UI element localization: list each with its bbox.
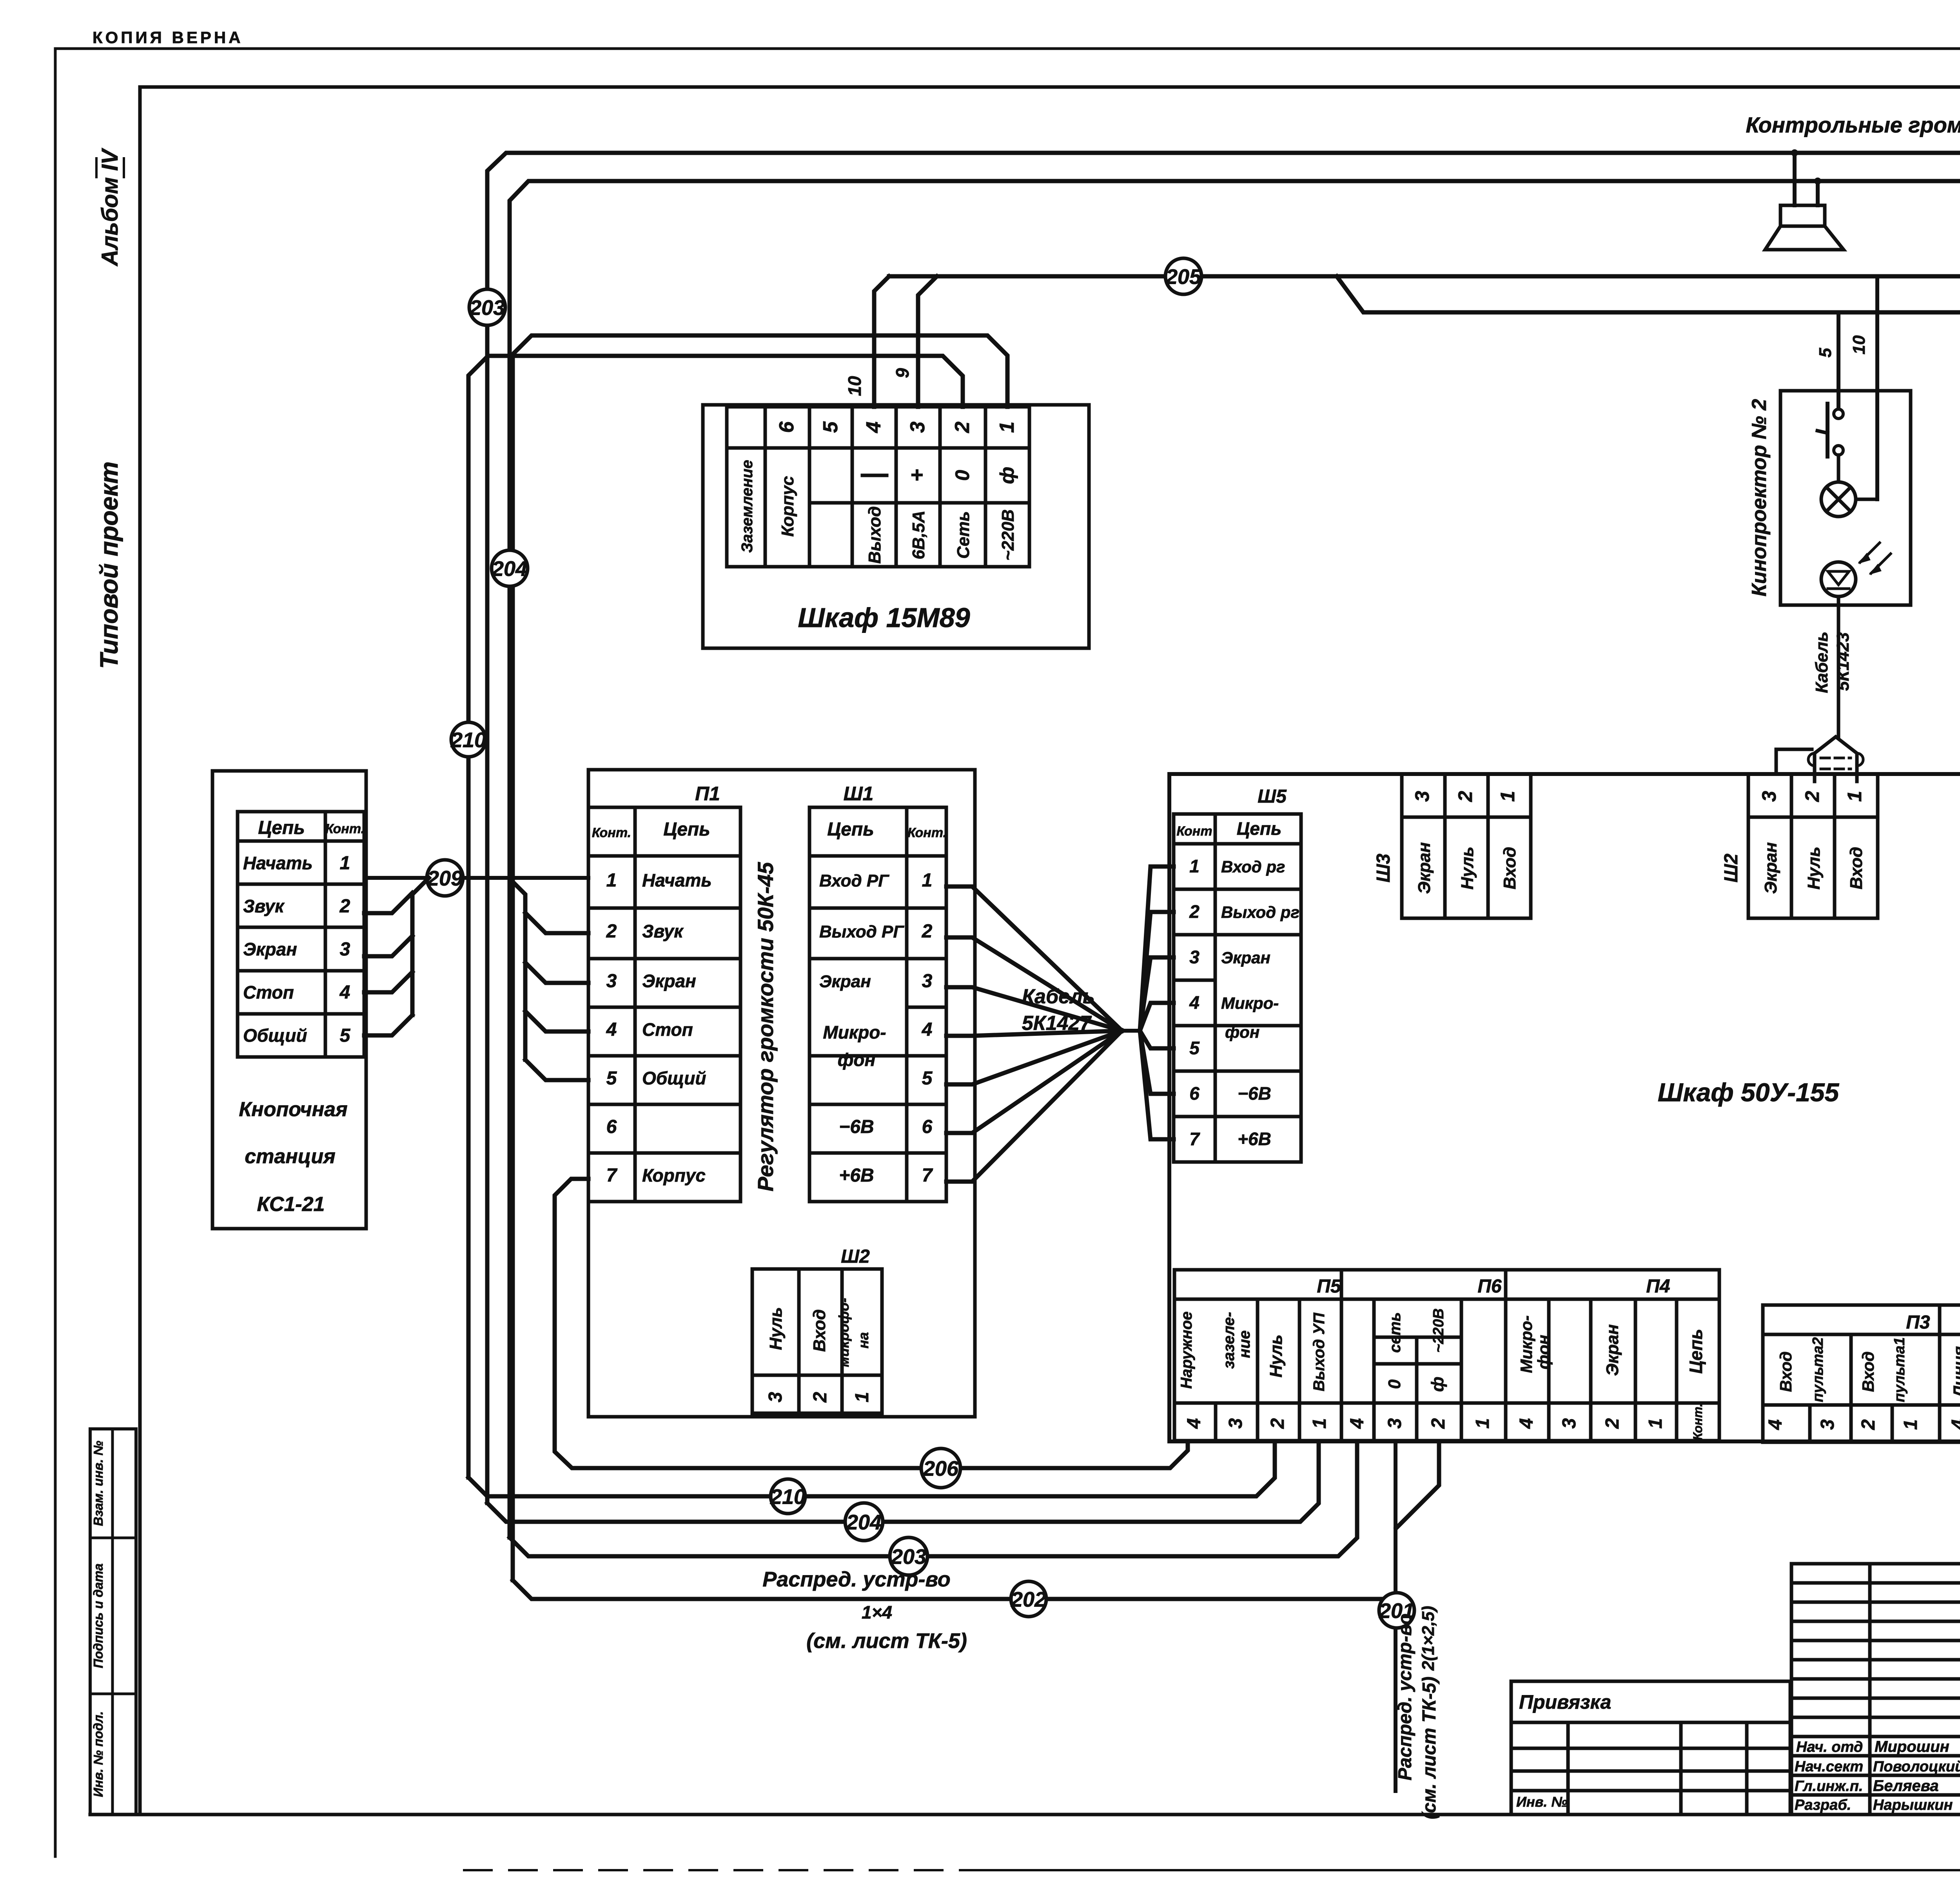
inventory strip	[90, 1429, 136, 1815]
svg-text:Распред. устр-во: Распред. устр-во	[1395, 1613, 1416, 1780]
node 203	[469, 289, 505, 325]
svg-text:Экран: Экран	[819, 972, 871, 991]
svg-text:Нуль: Нуль	[1458, 847, 1477, 890]
svg-text:Вход: Вход	[1847, 847, 1866, 890]
svg-text:Конт.: Конт.	[1691, 1403, 1705, 1440]
svg-text:10: 10	[1849, 335, 1869, 354]
svg-text:2: 2	[1428, 1418, 1449, 1429]
svg-text:Нуль: Нуль	[1804, 847, 1824, 890]
svg-text:3: 3	[1225, 1418, 1246, 1428]
svg-text:Экран: Экран	[1415, 842, 1434, 894]
svg-text:~220В: ~220В	[1430, 1308, 1447, 1352]
svg-text:Инв. №: Инв. №	[1516, 1794, 1568, 1810]
svg-text:Вход: Вход	[1859, 1351, 1877, 1392]
wire 201 vertical	[1394, 1441, 1397, 1791]
svg-text:фон: фон	[1225, 1023, 1259, 1041]
node 202	[1011, 1581, 1046, 1617]
svg-text:4: 4	[1948, 1419, 1960, 1430]
svg-text:203: 203	[891, 1545, 926, 1568]
svg-text:(см. лист ТК-5): (см. лист ТК-5)	[1419, 1677, 1440, 1819]
svg-text:Стоп: Стоп	[243, 982, 294, 1002]
svg-text:2: 2	[1801, 791, 1823, 802]
svg-text:ние: ние	[1236, 1331, 1253, 1358]
svg-text:1: 1	[1189, 856, 1200, 876]
svg-text:Выход УП: Выход УП	[1310, 1312, 1328, 1392]
svg-text:1: 1	[1900, 1419, 1921, 1430]
svg-text:1: 1	[1309, 1418, 1330, 1429]
svg-text:204: 204	[492, 557, 527, 580]
svg-text:Шкаф 15М89: Шкаф 15М89	[798, 602, 970, 633]
svg-text:2(1×2,5): 2(1×2,5)	[1419, 1606, 1438, 1671]
svg-text:Нач. отд: Нач. отд	[1796, 1739, 1863, 1755]
svg-text:пульта2: пульта2	[1810, 1337, 1826, 1402]
node 209	[427, 860, 463, 896]
svg-text:Мирошин: Мирошин	[1875, 1738, 1949, 1755]
svg-text:Начать: Начать	[243, 853, 313, 873]
svg-text:П3: П3	[1906, 1312, 1930, 1333]
wire 203 vertical and H1 to speakers	[487, 153, 1960, 1503]
svg-text:Вход РГ: Вход РГ	[819, 871, 889, 890]
connector table Sh5	[1174, 814, 1301, 1162]
svg-text:4: 4	[339, 982, 350, 1003]
svg-text:на: на	[855, 1332, 871, 1349]
box Shkaf 15M89	[703, 405, 1089, 648]
svg-text:5: 5	[819, 421, 842, 433]
svg-text:2: 2	[951, 421, 974, 433]
speaker A (control loudspeaker)	[1780, 205, 1825, 226]
svg-text:2: 2	[810, 1392, 831, 1403]
node 204	[492, 550, 528, 586]
svg-text:Общий: Общий	[243, 1025, 307, 1046]
svg-text:4: 4	[1189, 992, 1200, 1013]
svg-text:П5: П5	[1317, 1276, 1341, 1297]
svg-text:Наружное: Наружное	[1178, 1311, 1195, 1389]
svg-text:Конт.: Конт.	[907, 825, 947, 840]
svg-text:4: 4	[922, 1019, 933, 1040]
svg-text:Гл.инж.п.: Гл.инж.п.	[1795, 1778, 1863, 1795]
svg-text:6: 6	[1189, 1083, 1200, 1104]
svg-text:Кинопроектор № 2: Кинопроектор № 2	[1748, 399, 1771, 596]
svg-text:1: 1	[1472, 1418, 1493, 1429]
svg-text:210: 210	[450, 728, 486, 752]
cable 209 left fan	[364, 893, 412, 913]
connector plug kinoprojector 2	[1815, 737, 1857, 781]
wire 203 bottom horizontal	[510, 1442, 1357, 1556]
svg-text:Стоп: Стоп	[642, 1019, 693, 1040]
wire 206 from regulator to P5 pin4	[555, 1179, 1188, 1468]
svg-text:Привязка: Привязка	[1519, 1691, 1611, 1713]
svg-text:~220В: ~220В	[998, 509, 1018, 561]
wire 202 bottom horizontal	[513, 1580, 1392, 1599]
svg-text:Нуль: Нуль	[766, 1307, 786, 1350]
svg-text:Ш3: Ш3	[1373, 854, 1394, 883]
svg-text:Общий: Общий	[642, 1068, 706, 1088]
svg-text:Звук: Звук	[642, 921, 684, 941]
svg-text:Сеть: Сеть	[954, 511, 973, 559]
svg-text:+6В: +6В	[1238, 1129, 1271, 1149]
svg-text:Разраб.: Разраб.	[1795, 1797, 1851, 1813]
svg-text:ф: ф	[996, 467, 1018, 484]
wire 205 left bend pin 4	[874, 276, 889, 407]
node 210 bottom	[771, 1479, 805, 1514]
svg-text:2: 2	[1189, 901, 1200, 922]
svg-text:1: 1	[852, 1392, 873, 1403]
svg-text:1: 1	[1497, 791, 1519, 802]
svg-text:Экран: Экран	[642, 971, 696, 991]
svg-text:Линия: Линия	[1950, 1346, 1960, 1398]
svg-text:0: 0	[951, 470, 973, 481]
cabinet Shkaf 50U-155 outline	[1169, 774, 1960, 1441]
photocell arrows kinoprojector 2	[1860, 543, 1880, 562]
wire 202 vertical and H4 to cabinet pin 1	[513, 335, 1007, 1580]
svg-text:Микро-: Микро-	[1517, 1315, 1535, 1373]
svg-text:П1: П1	[695, 783, 720, 805]
svg-text:Нуль: Нуль	[1267, 1334, 1286, 1378]
svg-text:пульта1: пульта1	[1891, 1337, 1908, 1402]
svg-text:Заземление: Заземление	[739, 460, 756, 553]
svg-text:1: 1	[922, 870, 933, 891]
connector tables P5 P6 P4 outline	[1174, 1270, 1719, 1441]
svg-text:Звук: Звук	[243, 896, 285, 916]
svg-text:Ш1: Ш1	[844, 783, 874, 805]
svg-text:+6В: +6В	[839, 1165, 874, 1186]
svg-text:1: 1	[1844, 791, 1866, 802]
svg-text:3: 3	[340, 939, 350, 960]
svg-text:2: 2	[339, 896, 350, 917]
svg-text:3: 3	[1385, 1418, 1405, 1428]
svg-text:1: 1	[606, 870, 617, 891]
svg-text:Вход рг: Вход рг	[1221, 857, 1285, 876]
svg-text:4: 4	[1184, 1418, 1205, 1429]
svg-text:2: 2	[1454, 791, 1476, 802]
cable 5K1427 waist	[1122, 1029, 1140, 1033]
svg-text:205: 205	[1165, 265, 1201, 288]
svg-text:Поволоцкий: Поволоцкий	[1873, 1758, 1960, 1775]
svg-text:Вход: Вход	[810, 1309, 829, 1352]
svg-text:Цепь: Цепь	[1237, 818, 1282, 839]
connector tables P3 P2 P1 outline	[1763, 1305, 1960, 1442]
terminal table Shkaf 15M89	[727, 407, 1029, 567]
node 204 bottom	[845, 1503, 883, 1541]
svg-text:Цепь: Цепь	[258, 818, 305, 838]
svg-text:3: 3	[1189, 947, 1200, 967]
svg-text:сеть: сеть	[1387, 1312, 1404, 1353]
svg-text:Корпус: Корпус	[778, 476, 797, 537]
wire projector2 switch drop	[1837, 312, 1840, 411]
wire projector2 lamp drop	[1875, 276, 1879, 499]
svg-text:206: 206	[923, 1457, 959, 1480]
shield wire connector 2	[1776, 749, 1812, 774]
svg-text:Контрольные громкоговорители: Контрольные громкоговорители	[1746, 112, 1960, 137]
svg-text:Микро-: Микро-	[1221, 994, 1279, 1012]
svg-text:Цепь: Цепь	[1686, 1329, 1706, 1374]
svg-text:3: 3	[922, 971, 933, 992]
wire 210 bottom horizontal	[468, 1442, 1275, 1496]
svg-text:Взам. инв. №: Взам. инв. №	[91, 1441, 105, 1526]
svg-text:фон: фон	[1534, 1335, 1553, 1369]
svg-text:3: 3	[1758, 791, 1780, 802]
wire P6 pin2 slant to 201	[1396, 1442, 1439, 1528]
svg-text:1: 1	[996, 422, 1018, 433]
cable 5K1427 left fan	[946, 886, 1122, 1031]
svg-text:Выход рг: Выход рг	[1221, 903, 1299, 921]
svg-text:Выход РГ: Выход РГ	[819, 922, 904, 941]
svg-text:5: 5	[606, 1068, 617, 1089]
svg-text:3: 3	[1559, 1418, 1580, 1428]
svg-text:Экран: Экран	[1761, 842, 1780, 894]
svg-text:Конт.: Конт.	[325, 821, 365, 836]
connector table Sh2 cabinet	[1748, 774, 1878, 918]
svg-text:3: 3	[1817, 1419, 1838, 1430]
svg-text:10: 10	[844, 376, 865, 396]
svg-text:5К1423: 5К1423	[1833, 632, 1853, 691]
speaker A wire 2	[1816, 181, 1820, 205]
node 206	[921, 1448, 960, 1488]
svg-text:−6В: −6В	[1238, 1083, 1271, 1104]
svg-text:Экран: Экран	[1603, 1324, 1622, 1376]
svg-text:(см. лист ТК-5): (см. лист ТК-5)	[806, 1629, 967, 1653]
svg-text:9: 9	[892, 368, 913, 378]
svg-text:7: 7	[922, 1165, 933, 1186]
svg-text:Экран: Экран	[243, 939, 297, 959]
lamp kinoprojector 2	[1821, 482, 1856, 517]
wire 204 bottom horizontal	[487, 1442, 1319, 1522]
svg-text:Ш5: Ш5	[1258, 786, 1287, 807]
switch kinoprojector 2	[1834, 409, 1843, 419]
svg-text:1: 1	[340, 853, 350, 874]
sub divider P6 net cells	[1374, 1336, 1461, 1339]
connector table Sh1 regulator	[809, 807, 946, 1202]
svg-text:4: 4	[862, 421, 885, 433]
bottom dashed line	[464, 1869, 960, 1871]
svg-text:Начать: Начать	[642, 870, 712, 890]
svg-text:Кабель: Кабель	[1812, 631, 1831, 693]
svg-text:6: 6	[922, 1117, 933, 1137]
svg-text:209: 209	[427, 867, 463, 890]
svg-text:2: 2	[1602, 1418, 1623, 1429]
box volume regulator 50K-45	[588, 770, 975, 1417]
cable 209 right fan	[509, 878, 525, 1060]
svg-text:Цепь: Цепь	[663, 819, 710, 840]
wire 209 main	[366, 876, 588, 880]
title block main field	[1791, 1562, 1960, 1566]
inner frame	[140, 85, 1960, 89]
svg-text:2: 2	[1858, 1419, 1879, 1430]
svg-text:Беляева: Беляева	[1873, 1777, 1939, 1795]
svg-text:2: 2	[606, 921, 617, 942]
page border top	[55, 47, 1960, 50]
svg-text:4: 4	[1347, 1418, 1368, 1429]
wire 205 horizontal to projector 1 lamp	[889, 276, 1960, 502]
node 201	[1379, 1593, 1414, 1628]
svg-text:ф: ф	[1428, 1377, 1447, 1392]
svg-text:Кабель: Кабель	[1022, 985, 1095, 1008]
svg-text:7: 7	[606, 1165, 618, 1186]
wire 204 vertical and H2 to speakers	[510, 181, 1960, 1537]
node 203 bottom	[890, 1537, 927, 1575]
wire 205 left bend pin 3	[918, 276, 937, 407]
svg-text:КОПИЯ ВЕРНА: КОПИЯ ВЕРНА	[93, 28, 243, 47]
svg-text:2: 2	[922, 921, 933, 942]
svg-text:3: 3	[1411, 791, 1433, 802]
svg-text:3: 3	[906, 421, 929, 433]
wire 210 vertical and H3 to cabinet pin 2	[468, 356, 963, 1477]
svg-text:Цепь: Цепь	[827, 819, 874, 840]
svg-text:Типовой проект: Типовой проект	[95, 461, 123, 669]
svg-text:Конт: Конт	[1176, 824, 1212, 839]
svg-text:Альбом IV: Альбом IV	[97, 148, 123, 267]
svg-text:4: 4	[1516, 1418, 1537, 1429]
svg-text:станция: станция	[245, 1145, 335, 1168]
box button station KS1-21	[212, 771, 366, 1229]
table KS1-21	[238, 812, 364, 1057]
svg-text:6: 6	[606, 1117, 617, 1137]
svg-text:−6В: −6В	[839, 1117, 874, 1137]
speaker A wire 1	[1793, 153, 1797, 205]
svg-text:5: 5	[1189, 1038, 1200, 1058]
svg-text:203: 203	[469, 296, 505, 319]
svg-text:1×4: 1×4	[862, 1602, 892, 1622]
title block signature grid	[1791, 1564, 1960, 1815]
svg-text:Вход: Вход	[1777, 1351, 1795, 1392]
photocell kinoprojector 2	[1821, 562, 1856, 596]
node 210	[451, 722, 486, 757]
svg-text:фон: фон	[838, 1050, 876, 1070]
svg-text:Нач.сект: Нач.сект	[1795, 1758, 1863, 1775]
svg-text:Выход: Выход	[865, 506, 884, 564]
connector table Sh2 regulator	[752, 1269, 882, 1413]
svg-text:3: 3	[765, 1392, 786, 1402]
svg-text:Ш2: Ш2	[841, 1246, 870, 1267]
terminal labels Shkaf 15M89 row2	[862, 474, 887, 477]
connector table Sh3	[1402, 774, 1531, 918]
svg-text:зазеле-: зазеле-	[1220, 1312, 1238, 1369]
svg-text:4: 4	[606, 1019, 617, 1040]
svg-text:4: 4	[1765, 1419, 1786, 1430]
svg-text:5К1427: 5К1427	[1022, 1012, 1092, 1035]
wire 9-branch to projectors switches	[1337, 276, 1960, 414]
svg-text:+: +	[904, 469, 929, 482]
box kinoprojector 2	[1780, 391, 1911, 605]
svg-text:204: 204	[846, 1510, 882, 1534]
svg-text:Распред. устр-во: Распред. устр-во	[762, 1568, 950, 1591]
page border left	[54, 49, 57, 1856]
svg-text:6В,5А: 6В,5А	[909, 511, 928, 560]
svg-text:П6: П6	[1477, 1276, 1502, 1297]
svg-text:1: 1	[1645, 1418, 1666, 1429]
svg-text:7: 7	[1189, 1129, 1200, 1149]
node 205	[1165, 258, 1201, 294]
svg-text:Корпус: Корпус	[642, 1165, 706, 1186]
svg-text:Инв. № подл.: Инв. № подл.	[91, 1711, 105, 1797]
svg-text:Шкаф 50У-155: Шкаф 50У-155	[1658, 1078, 1840, 1107]
svg-text:6: 6	[775, 421, 798, 433]
svg-text:Подпись и дата: Подпись и дата	[91, 1563, 105, 1668]
svg-text:2: 2	[1267, 1418, 1288, 1429]
svg-text:Конт.: Конт.	[592, 825, 631, 840]
svg-text:Нарышкин: Нарышкин	[1873, 1797, 1953, 1813]
svg-text:3: 3	[606, 971, 617, 992]
svg-text:202: 202	[1011, 1588, 1046, 1611]
wire photocell to connector 2	[1837, 596, 1840, 737]
connector table P1 regulator	[588, 807, 740, 1202]
svg-text:Регулятор громкости 50К-45: Регулятор громкости 50К-45	[753, 862, 778, 1191]
svg-text:КС1-21: КС1-21	[257, 1193, 325, 1216]
svg-text:Кнопочная: Кнопочная	[239, 1098, 347, 1121]
svg-text:Экран: Экран	[1221, 948, 1270, 967]
svg-text:5: 5	[1816, 348, 1835, 357]
svg-text:0: 0	[1385, 1379, 1404, 1389]
svg-text:П4: П4	[1646, 1276, 1670, 1297]
svg-text:210: 210	[770, 1485, 806, 1508]
svg-text:Микро-: Микро-	[823, 1022, 886, 1042]
svg-text:Вход: Вход	[1500, 847, 1519, 890]
privyazka box	[1511, 1681, 1790, 1815]
svg-text:Ш2: Ш2	[1721, 854, 1742, 883]
cable 5K1427 right fan	[1140, 867, 1174, 1031]
svg-text:микрофо-: микрофо-	[836, 1298, 852, 1367]
svg-text:5: 5	[922, 1068, 933, 1089]
svg-text:5: 5	[340, 1025, 351, 1046]
